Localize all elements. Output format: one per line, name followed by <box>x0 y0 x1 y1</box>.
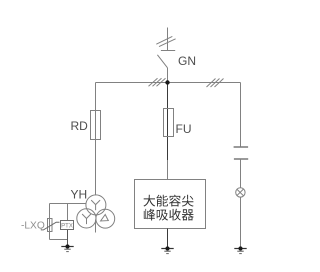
three-phase slashes right group <box>207 79 224 88</box>
transformer bottom stub wire <box>95 220 97 233</box>
svg-text:YH: YH <box>71 188 88 202</box>
wire lamp to ground <box>240 197 242 248</box>
arrester LXQ body <box>48 219 53 232</box>
lamp HL circle <box>236 188 245 197</box>
supply break slash 1 <box>156 36 172 44</box>
absorber box text line 2 (峰吸收器 as outlines) <box>144 209 194 221</box>
svg-text:PTX: PTX <box>61 223 73 229</box>
transformer YH secondary circle left <box>77 209 96 228</box>
transformer delta symbol <box>101 215 109 222</box>
ground symbol right <box>234 249 246 254</box>
lamp HL cross <box>237 189 244 196</box>
capacitor C bottom plate <box>234 158 248 160</box>
wire capacitor to lamp <box>240 159 242 188</box>
svg-text:GN: GN <box>178 54 196 68</box>
absorber box text line 1 (大能容尖 as outlines) <box>144 195 194 207</box>
wire PT loop bottom rail <box>50 239 68 241</box>
fuse RD body <box>91 111 101 140</box>
switch GN top terminal bar <box>161 50 175 52</box>
svg-text:-LXQ: -LXQ <box>21 221 45 232</box>
supply break slash 2 <box>159 39 176 47</box>
wire bus right segment <box>168 82 241 84</box>
wire middle branch to absorber box <box>167 160 169 180</box>
wire right branch down to capacitor <box>240 83 242 148</box>
junction dot at GN bus <box>165 80 169 84</box>
wire PT loop left leg <box>49 204 51 240</box>
absorber box outline <box>135 180 206 229</box>
wire middle branch junction through FU (heavy) <box>167 83 169 161</box>
three-phase slashes left group <box>149 78 166 86</box>
ground symbol middle <box>161 249 173 254</box>
wire PT loop top rail <box>50 203 86 205</box>
wire PT box to ground (heavy) <box>67 229 69 247</box>
junction dot at ground right <box>238 246 242 250</box>
transformer YH primary circle <box>86 195 106 215</box>
wire bus left segment <box>96 82 168 84</box>
wire PT loop middle leg <box>67 204 69 230</box>
ground symbol left <box>61 247 73 252</box>
svg-text:RD: RD <box>71 119 89 133</box>
supply drop wire <box>167 28 169 52</box>
wire left branch down to transformer <box>95 83 97 196</box>
transformer wye symbol secondary <box>82 214 91 224</box>
transformer YH secondary circle right <box>96 209 115 228</box>
svg-text:FU: FU <box>176 122 192 136</box>
junction dot at ground left <box>65 244 69 248</box>
wire absorber box to ground (heavy) <box>167 229 169 249</box>
transformer wye symbol primary <box>91 200 100 210</box>
box PTX body <box>61 221 74 230</box>
junction dot at ground middle <box>165 246 169 250</box>
arrester LXQ diagonal <box>41 222 60 230</box>
switch GN blade <box>157 55 167 68</box>
fuse FU body <box>164 109 174 137</box>
wire switch to bus junction <box>167 68 169 83</box>
capacitor C top plate <box>234 146 249 148</box>
